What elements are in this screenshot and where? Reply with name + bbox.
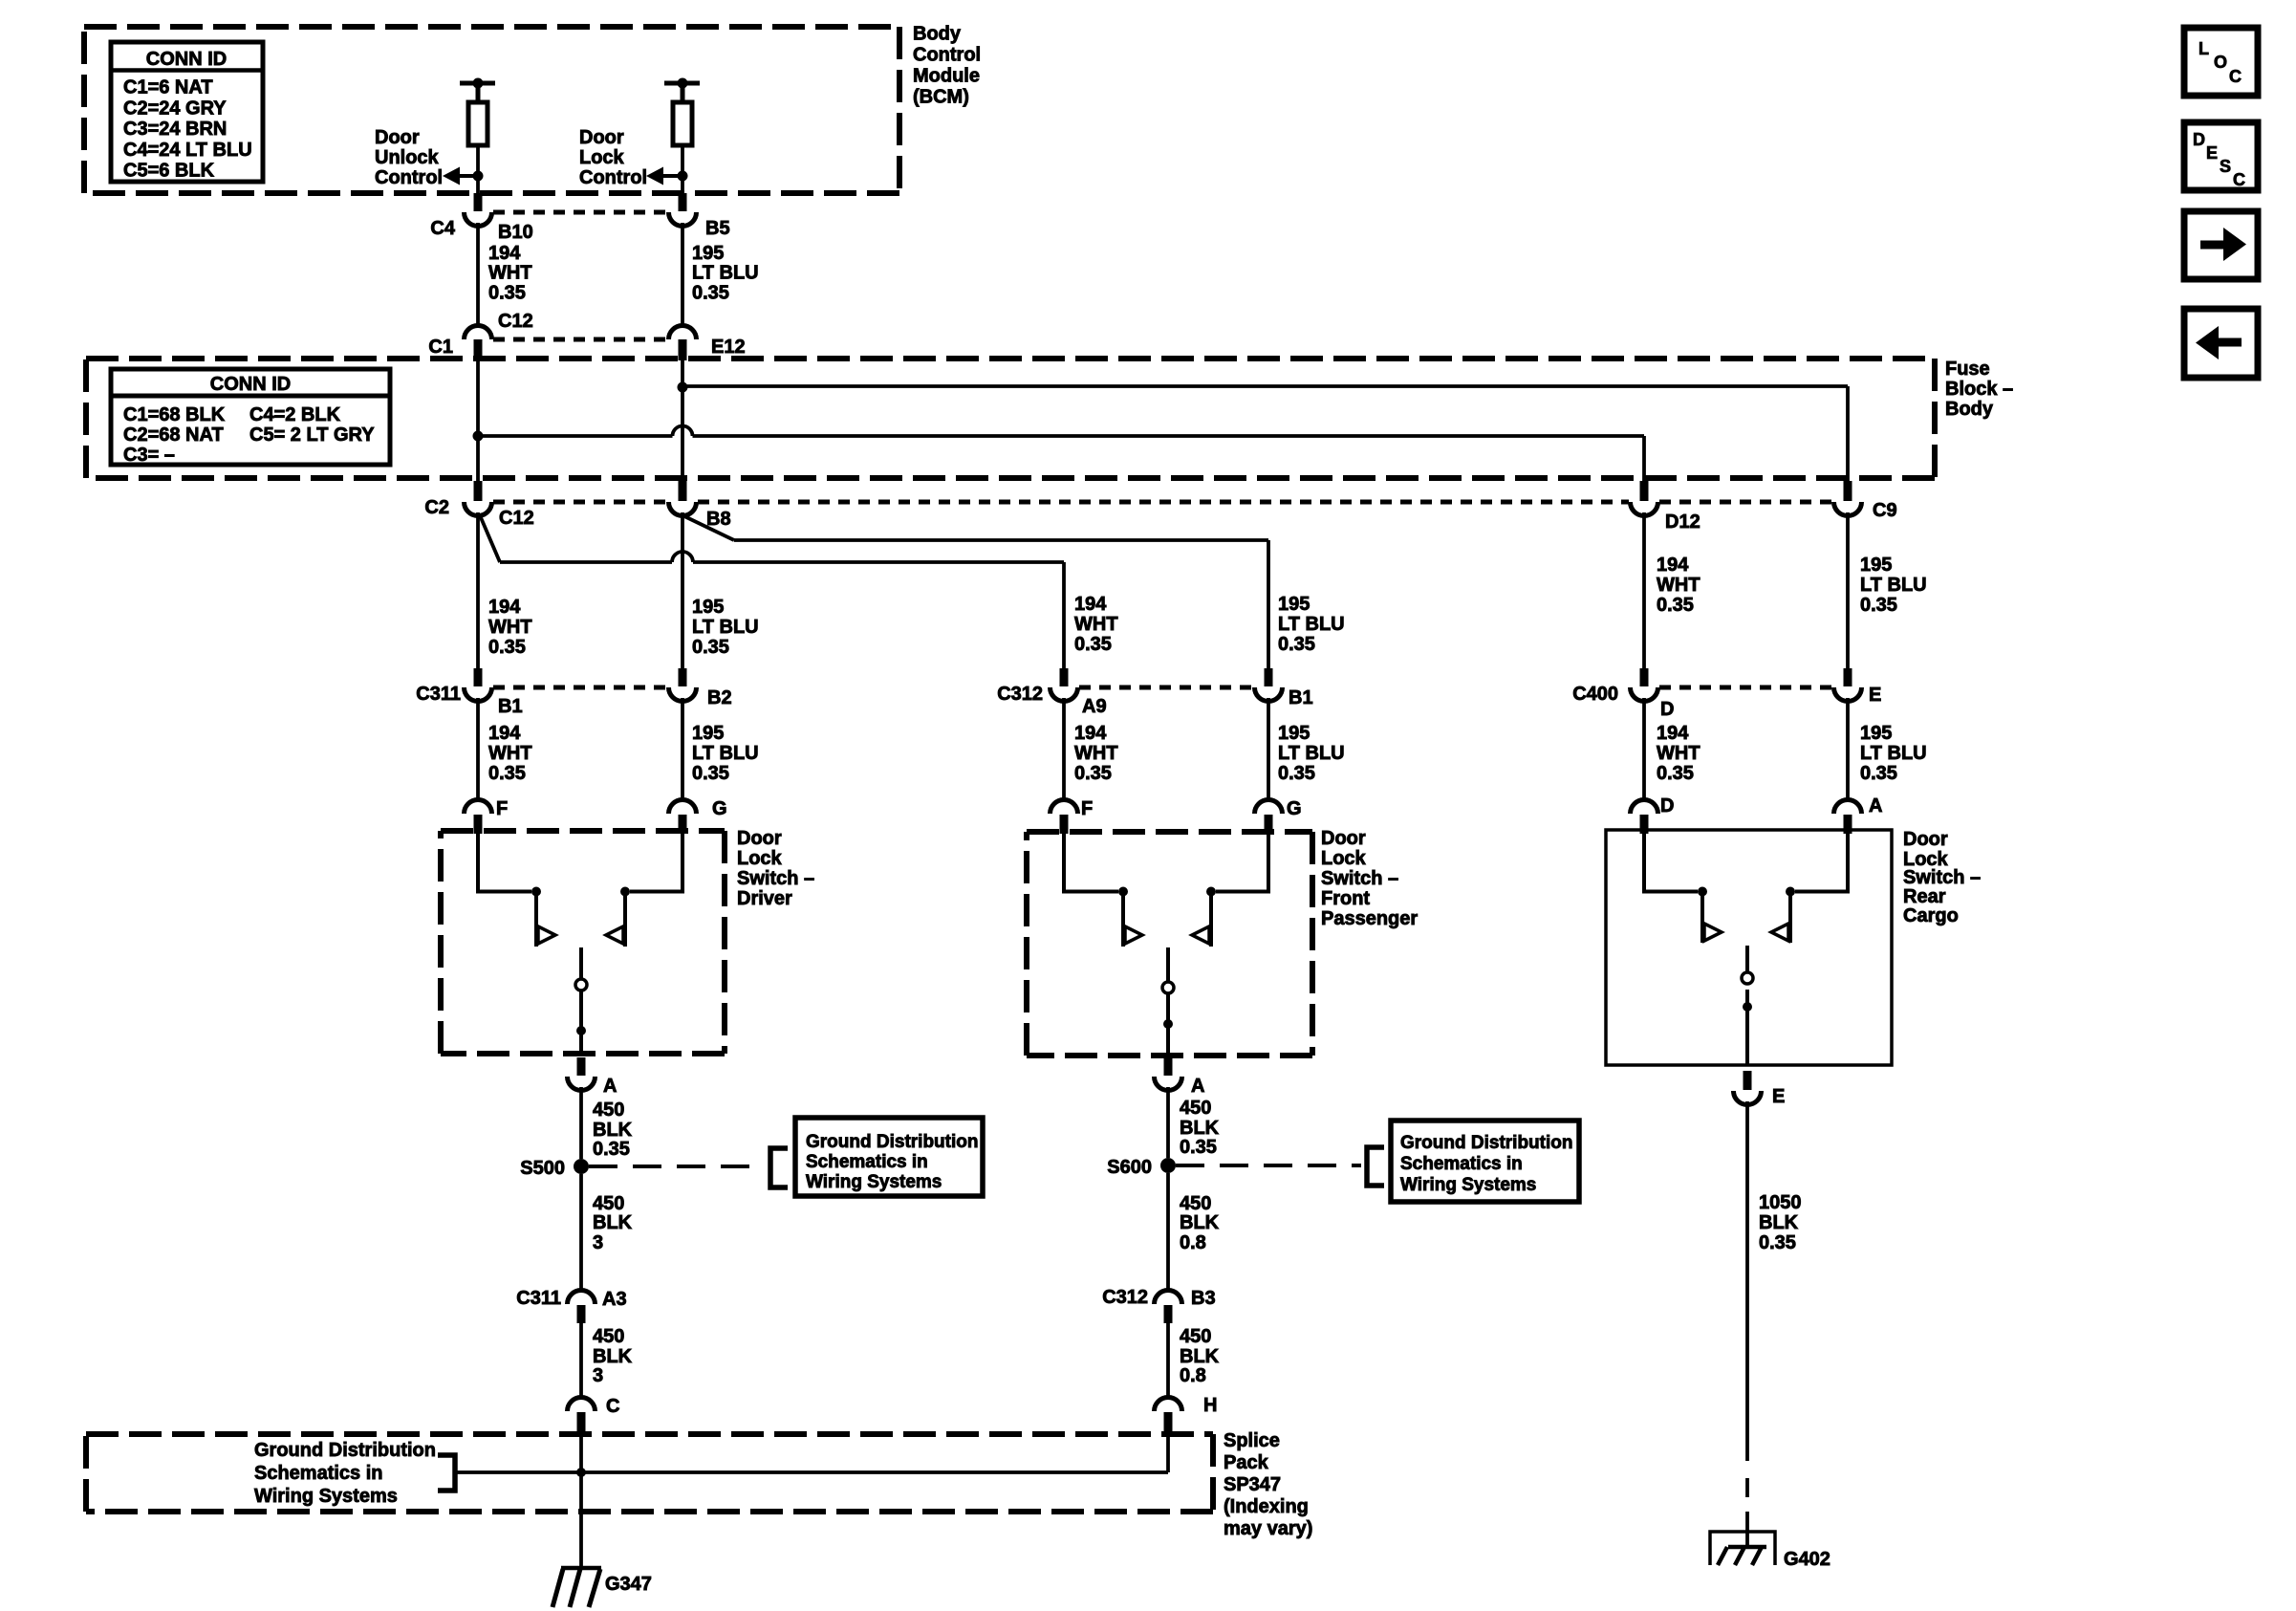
- svg-text:450: 450: [593, 1099, 624, 1121]
- svg-text:Schematics in: Schematics in: [806, 1152, 928, 1172]
- svg-text:0.35: 0.35: [488, 283, 526, 304]
- svg-text:WHT: WHT: [488, 743, 532, 764]
- svg-text:C5= 2 LT GRY: C5= 2 LT GRY: [249, 425, 375, 446]
- svg-text:0.35: 0.35: [1278, 634, 1315, 655]
- svg-text:Control: Control: [579, 167, 647, 188]
- svg-text:3: 3: [593, 1365, 603, 1386]
- svg-text:C312: C312: [1102, 1287, 1148, 1308]
- svg-text:Door: Door: [737, 828, 782, 849]
- svg-text:WHT: WHT: [1074, 743, 1118, 764]
- svg-text:450: 450: [1180, 1193, 1211, 1214]
- svg-text:C4=24 LT BLU: C4=24 LT BLU: [123, 140, 252, 161]
- svg-text:C12: C12: [499, 508, 534, 529]
- svg-text:LT BLU: LT BLU: [692, 263, 759, 284]
- svg-text:C4: C4: [430, 218, 455, 239]
- svg-text:WHT: WHT: [488, 263, 532, 284]
- svg-text:195: 195: [1860, 723, 1892, 744]
- svg-text:C9: C9: [1873, 500, 1897, 521]
- svg-text:Switch –: Switch –: [1903, 867, 1981, 888]
- svg-text:BLK: BLK: [593, 1346, 633, 1367]
- svg-text:G347: G347: [605, 1574, 652, 1595]
- svg-text:D: D: [1660, 795, 1674, 816]
- svg-text:0.35: 0.35: [1074, 634, 1112, 655]
- svg-text:194: 194: [1074, 723, 1107, 744]
- svg-text:0.35: 0.35: [1860, 763, 1897, 784]
- svg-text:A: A: [1191, 1076, 1204, 1097]
- svg-text:0.8: 0.8: [1180, 1232, 1206, 1253]
- svg-text:B1: B1: [1289, 687, 1313, 708]
- svg-text:C3= –: C3= –: [123, 445, 175, 466]
- svg-text:C2=24 GRY: C2=24 GRY: [123, 98, 227, 119]
- svg-text:B3: B3: [1191, 1288, 1216, 1309]
- svg-text:195: 195: [1860, 555, 1892, 576]
- svg-text:C2: C2: [424, 497, 449, 518]
- svg-text:0.35: 0.35: [1180, 1137, 1217, 1158]
- svg-text:C: C: [606, 1396, 619, 1417]
- svg-text:Rear: Rear: [1903, 886, 1946, 907]
- svg-text:194: 194: [1074, 594, 1107, 615]
- svg-text:0.35: 0.35: [1074, 763, 1112, 784]
- svg-text:Fuse: Fuse: [1945, 359, 1990, 380]
- svg-text:LT BLU: LT BLU: [692, 743, 759, 764]
- svg-text:Splice: Splice: [1224, 1430, 1280, 1451]
- svg-text:Wiring Systems: Wiring Systems: [254, 1486, 398, 1507]
- svg-text:Body: Body: [913, 24, 962, 45]
- svg-text:Module: Module: [913, 66, 980, 87]
- svg-text:A: A: [1869, 795, 1882, 816]
- svg-text:C2=68 NAT: C2=68 NAT: [123, 425, 224, 446]
- svg-text:C312: C312: [997, 684, 1043, 705]
- svg-text:B5: B5: [705, 218, 730, 239]
- svg-text:Body: Body: [1945, 399, 1994, 420]
- svg-text:3: 3: [593, 1232, 603, 1253]
- svg-text:0.35: 0.35: [1657, 595, 1694, 616]
- svg-text:C3=24 BRN: C3=24 BRN: [123, 119, 227, 140]
- svg-text:0.8: 0.8: [1180, 1365, 1206, 1386]
- svg-text:Passenger: Passenger: [1321, 908, 1418, 929]
- svg-text:C: C: [2233, 170, 2245, 189]
- svg-text:Door: Door: [1321, 828, 1366, 849]
- svg-text:C12: C12: [498, 311, 533, 332]
- svg-text:195: 195: [692, 597, 724, 618]
- svg-text:C400: C400: [1572, 684, 1618, 705]
- svg-text:L: L: [2199, 39, 2209, 58]
- svg-text:0.35: 0.35: [692, 283, 729, 304]
- svg-text:O: O: [2214, 53, 2227, 72]
- svg-text:0.35: 0.35: [488, 763, 526, 784]
- svg-text:G402: G402: [1784, 1549, 1830, 1570]
- svg-text:C1: C1: [428, 337, 453, 358]
- svg-text:194: 194: [488, 723, 521, 744]
- svg-text:E12: E12: [711, 337, 746, 358]
- svg-text:C1=6 NAT: C1=6 NAT: [123, 77, 213, 98]
- svg-text:B2: B2: [707, 687, 732, 708]
- svg-text:0.35: 0.35: [593, 1139, 630, 1160]
- svg-text:BLK: BLK: [593, 1120, 633, 1141]
- svg-text:0.35: 0.35: [692, 637, 729, 658]
- svg-text:450: 450: [1180, 1326, 1211, 1347]
- svg-text:LT BLU: LT BLU: [1278, 743, 1345, 764]
- svg-text:450: 450: [593, 1193, 624, 1214]
- svg-text:450: 450: [1180, 1098, 1211, 1119]
- svg-text:CONN ID: CONN ID: [210, 374, 291, 395]
- svg-text:G: G: [712, 798, 727, 819]
- svg-text:194: 194: [1657, 723, 1689, 744]
- svg-text:S600: S600: [1107, 1157, 1152, 1178]
- svg-text:may vary): may vary): [1224, 1518, 1312, 1539]
- svg-text:0.35: 0.35: [1278, 763, 1315, 784]
- svg-text:WHT: WHT: [1657, 575, 1700, 596]
- svg-text:Ground Distribution: Ground Distribution: [1400, 1133, 1572, 1153]
- svg-text:WHT: WHT: [488, 617, 532, 638]
- svg-text:Control: Control: [375, 167, 443, 188]
- svg-text:E: E: [1772, 1086, 1785, 1107]
- svg-text:F: F: [496, 798, 508, 819]
- svg-text:BLK: BLK: [1180, 1346, 1220, 1367]
- svg-text:Switch –: Switch –: [1321, 868, 1398, 889]
- svg-text:1050: 1050: [1759, 1192, 1802, 1213]
- svg-text:A3: A3: [602, 1289, 627, 1310]
- svg-text:SP347: SP347: [1224, 1474, 1281, 1495]
- svg-text:S: S: [2220, 157, 2231, 176]
- svg-text:D: D: [1660, 699, 1674, 720]
- svg-text:C5=6 BLK: C5=6 BLK: [123, 161, 215, 182]
- svg-text:Lock: Lock: [737, 848, 783, 869]
- svg-text:0.35: 0.35: [1657, 763, 1694, 784]
- svg-text:Schematics in: Schematics in: [1400, 1154, 1523, 1174]
- svg-text:Pack: Pack: [1224, 1452, 1269, 1473]
- svg-text:Control: Control: [913, 45, 981, 66]
- svg-text:A9: A9: [1082, 696, 1107, 717]
- svg-text:195: 195: [1278, 594, 1310, 615]
- svg-text:194: 194: [488, 597, 521, 618]
- svg-text:LT BLU: LT BLU: [1860, 743, 1927, 764]
- svg-text:C: C: [2229, 67, 2242, 86]
- svg-text:Cargo: Cargo: [1903, 905, 1959, 926]
- svg-text:BLK: BLK: [1180, 1212, 1220, 1233]
- svg-text:A: A: [603, 1076, 617, 1097]
- svg-text:194: 194: [1657, 555, 1689, 576]
- svg-text:Driver: Driver: [737, 888, 792, 909]
- svg-text:Lock: Lock: [1321, 848, 1367, 869]
- svg-text:H: H: [1203, 1395, 1217, 1416]
- svg-text:C4=2 BLK: C4=2 BLK: [249, 404, 341, 425]
- svg-text:Wiring Systems: Wiring Systems: [1400, 1175, 1536, 1195]
- svg-text:Lock: Lock: [579, 147, 625, 168]
- svg-text:E: E: [2206, 143, 2218, 163]
- svg-text:0.35: 0.35: [1759, 1232, 1796, 1253]
- svg-text:Front: Front: [1321, 888, 1370, 909]
- svg-text:Wiring Systems: Wiring Systems: [806, 1172, 942, 1192]
- svg-text:LT BLU: LT BLU: [692, 617, 759, 638]
- svg-text:B8: B8: [706, 509, 731, 530]
- svg-text:BLK: BLK: [593, 1212, 633, 1233]
- svg-text:Block –: Block –: [1945, 379, 2013, 400]
- svg-text:Ground Distribution: Ground Distribution: [254, 1440, 436, 1461]
- svg-text:BLK: BLK: [1180, 1118, 1220, 1139]
- svg-text:Ground Distribution: Ground Distribution: [806, 1132, 978, 1152]
- svg-text:195: 195: [1278, 723, 1310, 744]
- svg-text:Unlock: Unlock: [375, 147, 440, 168]
- svg-text:C1=68 BLK: C1=68 BLK: [123, 404, 226, 425]
- svg-text:WHT: WHT: [1074, 614, 1118, 635]
- svg-text:LT BLU: LT BLU: [1278, 614, 1345, 635]
- svg-text:450: 450: [593, 1326, 624, 1347]
- svg-text:F: F: [1081, 798, 1093, 819]
- svg-text:G: G: [1287, 798, 1302, 819]
- svg-text:LT BLU: LT BLU: [1860, 575, 1927, 596]
- svg-text:BLK: BLK: [1759, 1212, 1799, 1233]
- svg-text:D12: D12: [1665, 512, 1700, 533]
- svg-text:B10: B10: [498, 222, 533, 243]
- svg-text:C311: C311: [416, 684, 461, 705]
- svg-text:WHT: WHT: [1657, 743, 1700, 764]
- svg-text:Schematics in: Schematics in: [254, 1463, 383, 1484]
- svg-text:(BCM): (BCM): [913, 87, 969, 108]
- svg-text:B1: B1: [498, 696, 523, 717]
- svg-text:Switch –: Switch –: [737, 868, 814, 889]
- svg-text:CONN ID: CONN ID: [146, 49, 227, 70]
- svg-text:C311: C311: [516, 1288, 561, 1309]
- svg-text:D: D: [2193, 130, 2205, 149]
- svg-text:(Indexing: (Indexing: [1224, 1496, 1309, 1517]
- svg-text:195: 195: [692, 723, 724, 744]
- svg-text:Door: Door: [579, 127, 624, 148]
- svg-text:194: 194: [488, 243, 521, 264]
- svg-text:E: E: [1869, 685, 1881, 706]
- svg-text:0.35: 0.35: [488, 637, 526, 658]
- svg-text:S500: S500: [520, 1158, 565, 1179]
- svg-text:195: 195: [692, 243, 724, 264]
- svg-text:Door: Door: [375, 127, 420, 148]
- svg-text:0.35: 0.35: [1860, 595, 1897, 616]
- svg-text:Door: Door: [1903, 829, 1948, 850]
- svg-text:0.35: 0.35: [692, 763, 729, 784]
